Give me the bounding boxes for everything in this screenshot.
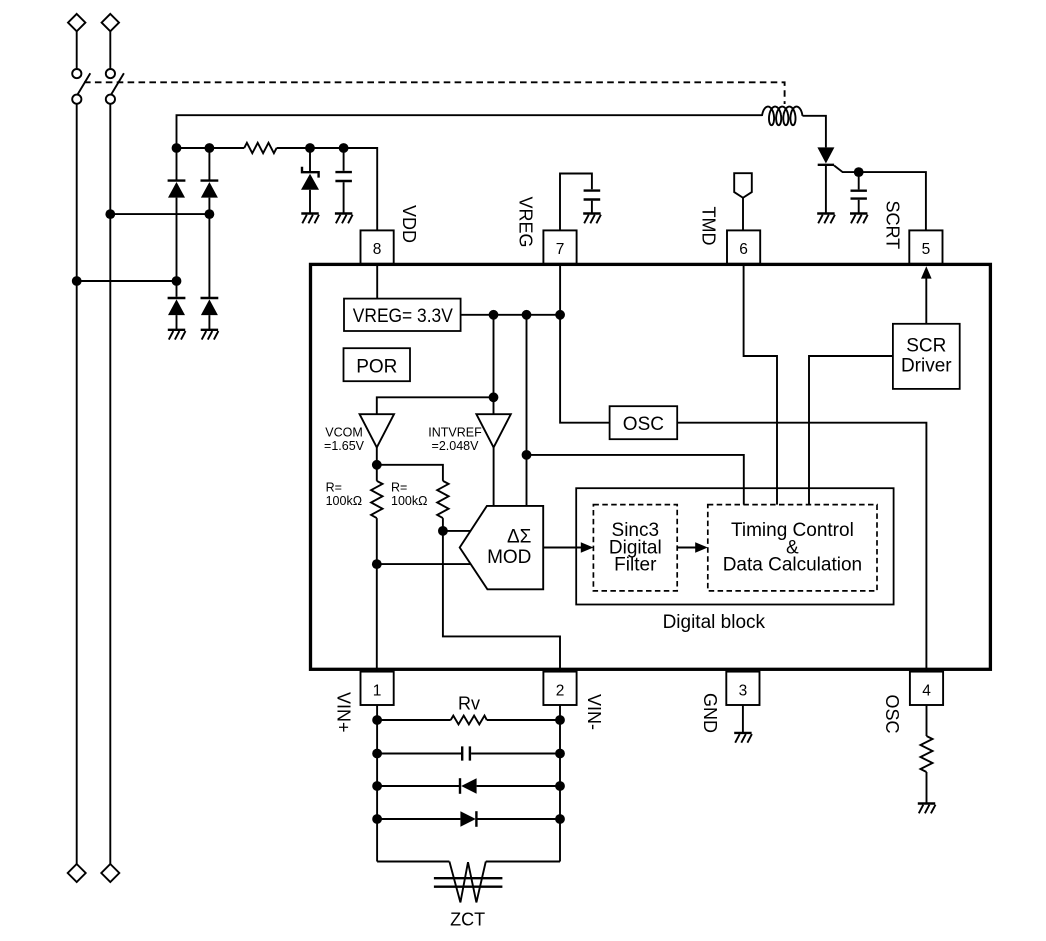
- block Sinc3 Digital Filter: [593, 505, 677, 591]
- ground D3: [168, 330, 186, 340]
- terminal diamond bottom line1: [68, 864, 86, 882]
- wire line2 to D2 cathode column: [105, 209, 214, 219]
- pin 7: [543, 230, 576, 263]
- svg-text:INTVREF: INTVREF: [428, 426, 482, 440]
- wire inductor to SCR anode: [803, 116, 826, 148]
- TMD probe terminal: [734, 173, 752, 230]
- pin 6: [727, 230, 760, 263]
- svg-text:7: 7: [556, 241, 565, 258]
- svg-text:VCOM: VCOM: [325, 426, 363, 440]
- wire line1 lower: [76, 104, 78, 864]
- buffer VCOM: [324, 414, 394, 453]
- svg-text:3: 3: [739, 682, 748, 699]
- capacitor C-VREG: [584, 191, 601, 214]
- pin label GND: [700, 693, 720, 733]
- node VDD rail junctions: [172, 143, 349, 153]
- wire pin7 to C-VREG: [560, 174, 592, 231]
- svg-text:6: 6: [739, 241, 748, 258]
- svg-text:Digital block: Digital block: [663, 612, 766, 633]
- thyristor SCR: [817, 147, 834, 213]
- capacitor C-SCRT: [851, 172, 867, 213]
- pin 1: [361, 672, 394, 705]
- wire SCR gate to pin5: [834, 166, 926, 231]
- wire VREG rail: [461, 310, 565, 320]
- ground DZ: [301, 214, 319, 224]
- wire line1 upper: [76, 31, 78, 69]
- diode D1: [168, 148, 186, 281]
- ground GND pin: [734, 733, 752, 743]
- svg-text:4: 4: [922, 682, 931, 699]
- diode DV2 right: [377, 811, 560, 827]
- svg-text:VREG: VREG: [516, 197, 536, 248]
- pin label SCRT: [883, 201, 903, 250]
- terminal diamond top line2: [102, 14, 119, 31]
- wire R1 node to MOD lower input: [377, 563, 470, 565]
- svg-text:Filter: Filter: [614, 555, 657, 576]
- block OSC: [610, 406, 678, 439]
- resistor R2: [391, 481, 449, 519]
- pin 4: [910, 672, 943, 705]
- transformer ZCT: [377, 862, 560, 930]
- svg-text:5: 5: [922, 241, 931, 258]
- wire R-OSC to ground: [926, 772, 928, 804]
- svg-text:MOD: MOD: [487, 547, 531, 568]
- wire pin4 to resistor: [926, 705, 928, 736]
- svg-text:100kΩ: 100kΩ: [326, 494, 362, 508]
- svg-text:Data Calculation: Data Calculation: [723, 555, 862, 576]
- block POR: [344, 348, 411, 381]
- pin 8: [361, 230, 394, 263]
- capacitor C-VDD: [335, 148, 352, 214]
- diode DV1 left: [377, 778, 560, 794]
- diode D4: [201, 297, 219, 330]
- wire line1 to D1 column: [72, 276, 182, 286]
- arrow MOD to Sinc3: [543, 542, 593, 552]
- resistor R1: [326, 465, 383, 518]
- wire R2 node to pin2: [443, 531, 560, 672]
- wire top rail to inductor: [177, 115, 763, 148]
- ground D4: [201, 330, 219, 340]
- wire line2 upper: [109, 31, 111, 69]
- wire VDD rail left: [177, 147, 245, 149]
- wire VREG to references: [377, 315, 499, 414]
- wire line2 lower: [109, 104, 111, 864]
- wire VCOM node: [372, 447, 443, 481]
- ground R-OSC: [918, 804, 936, 814]
- switch S2: [106, 69, 124, 104]
- ground C-VREG: [583, 214, 601, 224]
- pin label OSC: [882, 695, 902, 734]
- svg-text:ZCT: ZCT: [450, 910, 485, 930]
- block Timing Control and Data Calculation: [708, 505, 877, 591]
- wire R1 to pin1 column: [372, 518, 382, 672]
- svg-text:2: 2: [556, 682, 565, 699]
- svg-text:OSC: OSC: [882, 695, 902, 734]
- modulator ΔΣ MOD: [460, 506, 544, 589]
- wire VDD rail right to pin8: [277, 148, 378, 230]
- pin label VIN+: [334, 692, 354, 733]
- resistor Rv: [377, 693, 560, 724]
- IC package body: [311, 264, 991, 669]
- buffer INTVREF: [428, 414, 511, 453]
- pin label VIN-: [584, 694, 604, 730]
- svg-text:ΔΣ: ΔΣ: [507, 526, 531, 547]
- pin 3: [726, 672, 759, 705]
- wire VIN- rail: [555, 705, 565, 862]
- ground C-SCRT: [850, 214, 868, 224]
- block VREG=3.3V: [344, 299, 461, 331]
- svg-text:R=: R=: [391, 481, 407, 495]
- resistor series VDD: [244, 143, 276, 153]
- wire SCR Driver to Timing: [809, 356, 893, 505]
- wire pin8 to VREG block: [376, 264, 378, 299]
- svg-text:TMD: TMD: [699, 207, 719, 246]
- block Digital block: [576, 488, 893, 633]
- wire pin7 into IC: [559, 264, 561, 315]
- svg-text:POR: POR: [356, 356, 397, 377]
- svg-text:Rv: Rv: [458, 693, 480, 713]
- svg-text:VREG= 3.3V: VREG= 3.3V: [353, 306, 453, 327]
- svg-text:VIN-: VIN-: [584, 694, 604, 730]
- wire VREG node to Timing: [527, 455, 744, 505]
- arrow SCR Driver to pin5: [921, 266, 932, 324]
- wire VIN+ rail: [372, 705, 382, 862]
- block SCR Driver: [893, 324, 960, 389]
- svg-text:Driver: Driver: [901, 356, 952, 377]
- wire INTVREF to MOD: [493, 447, 495, 506]
- pin label VDD: [399, 205, 419, 243]
- svg-text:VIN+: VIN+: [334, 692, 354, 733]
- pin 5: [909, 230, 942, 263]
- svg-text:100kΩ: 100kΩ: [391, 494, 427, 508]
- pin label VREG: [516, 197, 536, 248]
- wire VREG to MOD top: [522, 315, 532, 506]
- arrow Sinc3 to Timing: [677, 542, 708, 552]
- svg-text:8: 8: [373, 241, 382, 258]
- ground C-VDD: [335, 214, 353, 224]
- svg-text:1: 1: [373, 682, 382, 699]
- pin 2: [543, 672, 576, 705]
- wire pin6 to Timing: [744, 264, 777, 505]
- svg-text:SCR: SCR: [906, 336, 946, 357]
- svg-text:=2.048V: =2.048V: [432, 439, 480, 453]
- wire R2 to MOD upper input: [438, 518, 470, 536]
- diode D3: [168, 281, 186, 330]
- wire pin3 to ground: [742, 705, 744, 733]
- dashed control line: [84, 82, 785, 104]
- resistor R-OSC: [921, 736, 933, 772]
- wire OSC to pin4: [677, 423, 926, 672]
- diode D2: [201, 148, 219, 297]
- svg-text:OSC: OSC: [623, 414, 664, 435]
- inductor L1: [762, 107, 803, 126]
- svg-text:R=: R=: [326, 481, 342, 495]
- terminal diamond bottom line2: [101, 864, 119, 882]
- ground SCR cathode: [817, 214, 835, 224]
- switch S1: [72, 69, 90, 104]
- svg-text:VDD: VDD: [399, 205, 419, 243]
- capacitor row VIN: [377, 746, 560, 760]
- svg-text:GND: GND: [700, 693, 720, 733]
- svg-text:SCRT: SCRT: [883, 201, 903, 250]
- wire OSC feed: [560, 315, 610, 423]
- terminal diamond top-left line1: [68, 14, 85, 31]
- pin label TMD: [699, 207, 719, 246]
- svg-text:=1.65V: =1.65V: [324, 439, 365, 453]
- zener diode DZ: [301, 148, 319, 214]
